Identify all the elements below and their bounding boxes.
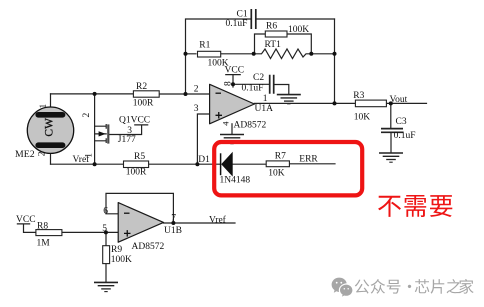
svg-text:100K: 100K [288,25,309,35]
svg-text:Vref: Vref [209,215,227,226]
svg-text:100R: 100R [133,98,154,108]
svg-text:R1: R1 [199,41,210,51]
svg-text:J177: J177 [118,135,136,145]
svg-text:AD8572: AD8572 [234,120,267,130]
svg-text:1: 1 [263,94,268,104]
svg-text:R5: R5 [134,152,145,162]
svg-text:ERR: ERR [299,155,318,165]
svg-text:1M: 1M [37,238,51,248]
svg-text:U1A: U1A [255,104,274,114]
svg-text:0.1uF: 0.1uF [242,84,264,94]
svg-text:2: 2 [82,113,92,118]
svg-text:0.1uF: 0.1uF [226,19,248,29]
svg-text:ME2: ME2 [15,149,35,160]
svg-text:U1B: U1B [164,226,182,236]
svg-text:AD8572: AD8572 [132,242,165,252]
svg-text:R7: R7 [275,152,286,162]
svg-text:6: 6 [103,207,108,217]
svg-text:3: 3 [194,104,199,114]
svg-text:10K: 10K [268,168,285,178]
svg-text:R2: R2 [136,82,147,92]
svg-text:R9: R9 [111,245,122,255]
svg-text:7: 7 [171,214,176,224]
svg-text:R3: R3 [353,91,364,101]
svg-text:2: 2 [37,151,47,156]
svg-text:0.1uF: 0.1uF [394,131,416,141]
svg-text:RT1: RT1 [265,40,282,50]
svg-text:100R: 100R [126,168,147,178]
svg-text:Vout: Vout [390,95,408,105]
svg-text:C2: C2 [253,73,264,83]
svg-text:Q1VCC: Q1VCC [119,116,150,126]
svg-text:VCC: VCC [225,65,245,75]
svg-text:8: 8 [223,81,233,86]
svg-text:R6: R6 [266,22,277,32]
svg-text:VCC: VCC [16,215,36,225]
svg-text:10K: 10K [354,112,371,122]
svg-text:5: 5 [102,224,107,234]
svg-text:2: 2 [194,84,199,94]
svg-text:R8: R8 [37,221,48,231]
svg-text:1: 1 [39,104,49,109]
svg-text:1: 1 [85,153,95,158]
svg-text:100K: 100K [111,255,132,265]
svg-text:C3: C3 [396,117,407,127]
svg-text:1N4148: 1N4148 [220,176,251,186]
svg-text:CW: CW [43,118,55,137]
svg-text:D1: D1 [198,155,210,165]
